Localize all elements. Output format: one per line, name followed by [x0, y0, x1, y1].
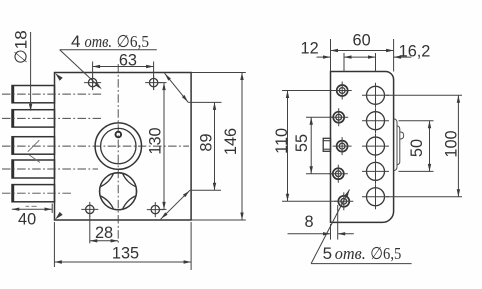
- svg-text:отв.: отв.: [85, 32, 113, 51]
- thumb-turn pillow shape: [100, 173, 137, 210]
- cylinder inner circle: [101, 128, 136, 163]
- dim 146: [191, 73, 246, 221]
- svg-text:100: 100: [442, 130, 460, 157]
- hole bottom-left: [81, 202, 98, 217]
- svg-text:89: 89: [197, 133, 215, 151]
- hole bottom-right: [147, 202, 164, 217]
- svg-text:40: 40: [18, 211, 36, 229]
- thumb-turn outer circle: [100, 173, 137, 210]
- screw hole S4: [329, 165, 348, 183]
- svg-text:60: 60: [353, 31, 371, 49]
- keyhole pin circle: [116, 132, 122, 138]
- svg-text:∅6,5: ∅6,5: [117, 32, 150, 51]
- right bump profile: [394, 119, 404, 171]
- hole top-right: [145, 75, 162, 90]
- corner arrow bottom-left: [55, 212, 63, 220]
- svg-text:5: 5: [323, 244, 332, 263]
- svg-text:135: 135: [112, 245, 139, 263]
- bolt B4: [12, 160, 55, 178]
- dim 12: [301, 39, 376, 71]
- screw hole S3: [333, 137, 352, 155]
- dim 16,2: [368, 43, 430, 72]
- dim 63: [93, 51, 154, 90]
- big hole H1: [362, 83, 389, 108]
- strike plate outline: [331, 72, 394, 223]
- svg-text:63: 63: [119, 51, 137, 69]
- label 5 otv: [323, 244, 402, 263]
- centerline bolt B5: [2, 192, 72, 194]
- screw hole S1: [333, 82, 352, 100]
- centerline bolt B3: [2, 145, 189, 147]
- svg-text:16,2: 16,2: [399, 43, 431, 61]
- label dia18: [12, 30, 31, 64]
- surface mark on bolt B3: [28, 140, 40, 162]
- svg-text:146: 146: [222, 128, 240, 155]
- centerline bolt B1: [2, 93, 103, 95]
- svg-text:130: 130: [147, 127, 165, 154]
- hole top-left: [84, 75, 101, 90]
- leader 5 otv: [311, 190, 412, 264]
- screw hole S5: [334, 192, 353, 210]
- dim 28: [90, 216, 118, 244]
- svg-text:12: 12: [301, 39, 319, 57]
- centerline bolt B4: [2, 168, 98, 170]
- svg-text:4: 4: [71, 32, 80, 51]
- svg-text:отв.: отв.: [335, 244, 366, 263]
- svg-text:110: 110: [273, 128, 291, 154]
- dim 8: [288, 205, 354, 240]
- dim 40: [12, 204, 52, 229]
- corner arrow top-left: [55, 73, 63, 81]
- dim 89: [161, 73, 222, 219]
- label 4 otv: [71, 32, 149, 51]
- leader dia18: [29, 32, 32, 111]
- bolt B5: [12, 185, 55, 202]
- big hole H5: [362, 184, 389, 209]
- dim 55: [293, 117, 333, 174]
- leader 4 otv: [60, 50, 157, 90]
- dim 110: [273, 91, 337, 202]
- svg-text:50: 50: [408, 139, 426, 157]
- bolt B1: [12, 86, 55, 103]
- centerline vertical axis: [117, 64, 119, 244]
- bolt B3: [12, 137, 55, 155]
- big hole H2: [362, 108, 389, 133]
- centerline bolt B2: [2, 117, 101, 119]
- lock body outline: [55, 73, 192, 221]
- svg-text:∅18: ∅18: [12, 30, 31, 64]
- svg-text:8: 8: [304, 213, 313, 231]
- dim 135: [54, 222, 191, 270]
- dim 60: [331, 31, 394, 71]
- dim 100: [386, 95, 462, 197]
- svg-text:28: 28: [95, 224, 113, 242]
- dim 50: [399, 121, 434, 172]
- left tab: [323, 138, 330, 151]
- dim 130: [147, 83, 167, 210]
- big hole H4: [362, 159, 389, 184]
- svg-text:55: 55: [293, 134, 311, 152]
- bolt B2: [12, 110, 55, 127]
- screw hole S2: [329, 108, 348, 126]
- svg-text:∅6,5: ∅6,5: [370, 244, 401, 263]
- big hole H3: [362, 134, 389, 159]
- cylinder outer circle: [95, 123, 141, 169]
